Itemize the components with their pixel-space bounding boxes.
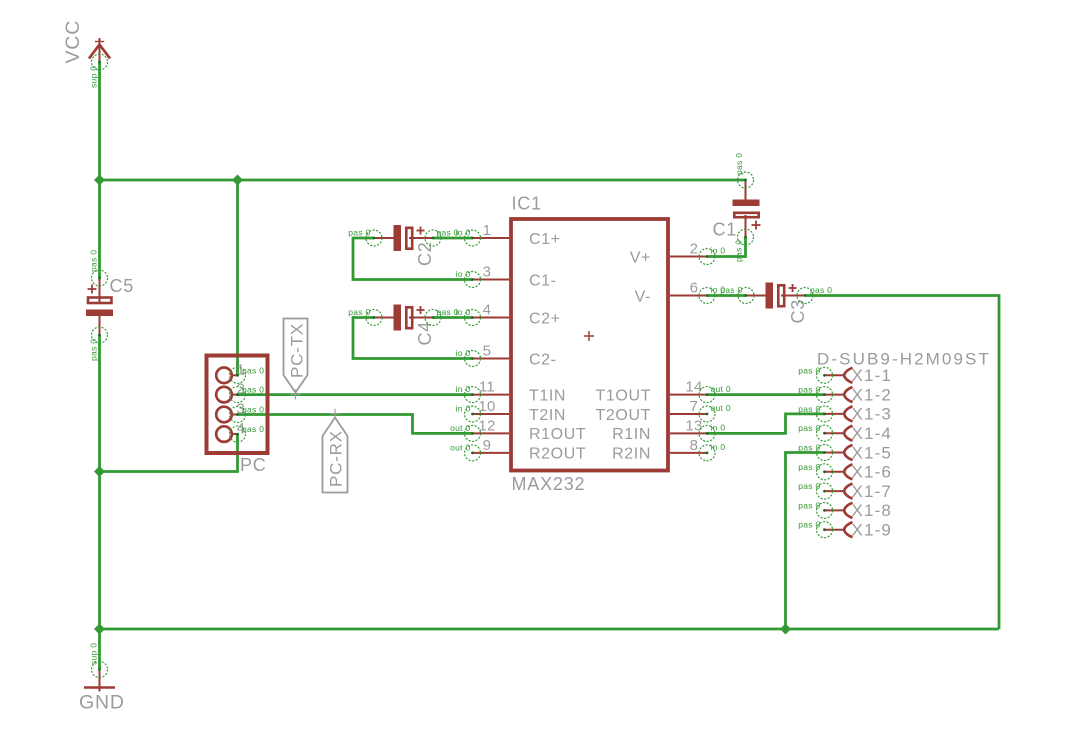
svg-text:pas 0: pas 0 bbox=[810, 285, 832, 295]
wire C4 minus loop to pin5 bbox=[353, 318, 473, 359]
svg-text:7: 7 bbox=[690, 398, 699, 415]
svg-text:VCC: VCC bbox=[62, 20, 84, 64]
svg-text:pas 0: pas 0 bbox=[348, 228, 370, 238]
wire net PC-TX PC pin2 to T1IN pin11 bbox=[238, 393, 473, 396]
wire VCC net vertical drop bbox=[98, 62, 101, 180]
svg-text:X1-3: X1-3 bbox=[852, 405, 893, 424]
svg-text:X1-4: X1-4 bbox=[852, 424, 893, 443]
svg-text:C1-: C1- bbox=[529, 272, 557, 289]
svg-text:12: 12 bbox=[478, 417, 495, 434]
svg-text:pas 0: pas 0 bbox=[798, 500, 820, 510]
IC1 pin 6 V- bbox=[635, 280, 726, 306]
svg-text:pas 0: pas 0 bbox=[242, 385, 264, 395]
svg-text:pas 0: pas 0 bbox=[242, 365, 264, 375]
svg-text:pas 0: pas 0 bbox=[798, 443, 820, 453]
svg-text:pas 0: pas 0 bbox=[242, 424, 264, 434]
svg-text:in 0: in 0 bbox=[711, 423, 726, 433]
svg-text:X1-6: X1-6 bbox=[852, 463, 893, 482]
connector pin X1-9 bbox=[798, 520, 892, 540]
svg-text:C2-: C2- bbox=[529, 351, 557, 368]
IC1 pin 13 R1IN bbox=[612, 417, 725, 443]
svg-text:pas 0: pas 0 bbox=[89, 250, 99, 272]
supply symbol GND bbox=[79, 643, 125, 714]
IC1 pin 11 T1IN bbox=[456, 379, 566, 405]
svg-text:1: 1 bbox=[483, 222, 492, 239]
svg-text:pas 0: pas 0 bbox=[734, 153, 744, 175]
svg-text:X1-8: X1-8 bbox=[852, 501, 893, 520]
IC1 pin 1 C1+ bbox=[456, 222, 561, 248]
capacitor C3 bbox=[720, 283, 832, 324]
svg-text:C1+: C1+ bbox=[529, 231, 561, 248]
svg-text:D-SUB9-H2M09ST: D-SUB9-H2M09ST bbox=[817, 350, 991, 369]
svg-text:pas 0: pas 0 bbox=[798, 481, 820, 491]
svg-text:out 0: out 0 bbox=[711, 403, 731, 413]
svg-text:pas 0: pas 0 bbox=[798, 404, 820, 414]
connector pin X1-6 bbox=[798, 462, 892, 482]
wire R1IN pin13 to X1-3 bbox=[707, 414, 825, 434]
svg-text:GND: GND bbox=[79, 692, 125, 714]
svg-text:V-: V- bbox=[635, 288, 651, 305]
svg-text:pas 0: pas 0 bbox=[798, 385, 820, 395]
svg-text:5: 5 bbox=[483, 343, 492, 360]
IC1 pin 5 C2- bbox=[456, 343, 557, 369]
svg-text:in 0: in 0 bbox=[711, 442, 726, 452]
svg-text:sup 0: sup 0 bbox=[89, 643, 99, 665]
svg-text:io 0: io 0 bbox=[456, 269, 471, 279]
svg-text:io 0: io 0 bbox=[456, 307, 471, 317]
wire C2 plus to pin1 bbox=[433, 237, 473, 240]
svg-text:8: 8 bbox=[690, 437, 699, 454]
svg-text:MAX232: MAX232 bbox=[512, 474, 586, 494]
capacitor C1 bbox=[713, 153, 761, 262]
svg-text:9: 9 bbox=[483, 437, 492, 454]
svg-text:X1-1: X1-1 bbox=[852, 366, 893, 385]
svg-text:pas 0: pas 0 bbox=[89, 339, 99, 361]
connector pin X1-7 bbox=[798, 481, 892, 501]
svg-text:in 0: in 0 bbox=[456, 384, 471, 394]
svg-text:C5: C5 bbox=[110, 276, 135, 296]
connector pin X1-4 bbox=[798, 423, 892, 443]
connector pin X1-8 bbox=[798, 500, 892, 520]
IC1 pin 8 R2IN bbox=[612, 437, 725, 463]
svg-text:pas 0: pas 0 bbox=[242, 405, 264, 415]
IC1 pin 7 T2OUT bbox=[596, 398, 731, 424]
IC1 pin 3 C1- bbox=[456, 264, 557, 290]
svg-text:6: 6 bbox=[690, 280, 699, 297]
net label PC-RX bbox=[323, 409, 348, 493]
wire V- pin6 to C3 bbox=[707, 294, 746, 297]
svg-text:C3: C3 bbox=[788, 299, 808, 324]
svg-text:sup 0: sup 0 bbox=[89, 66, 99, 88]
connector pin X1-5 bbox=[798, 443, 892, 463]
junction VCC rail / C5 branch bbox=[94, 175, 105, 186]
svg-text:io 0: io 0 bbox=[456, 228, 471, 238]
svg-text:T2OUT: T2OUT bbox=[596, 407, 651, 424]
IC1 pin 9 R2OUT bbox=[450, 437, 586, 463]
svg-text:PC-TX: PC-TX bbox=[288, 323, 307, 378]
wire VCC to PC pin1 bbox=[236, 180, 239, 375]
svg-text:4: 4 bbox=[483, 302, 492, 319]
connector PC 4-pin header bbox=[207, 356, 268, 476]
wire C5 bottom to GND rail bbox=[98, 335, 101, 629]
svg-text:X1-2: X1-2 bbox=[852, 385, 893, 404]
svg-text:C2+: C2+ bbox=[529, 310, 561, 327]
wire T1OUT pin14 to X1-2 bbox=[707, 393, 825, 396]
capacitor C2 bbox=[348, 225, 459, 266]
IC1 pin 14 T1OUT bbox=[596, 379, 731, 405]
svg-text:out 0: out 0 bbox=[711, 384, 731, 394]
svg-text:io 0: io 0 bbox=[711, 285, 726, 295]
connector pin X1-3 bbox=[798, 404, 892, 424]
wire GND rail to GND symbol bbox=[98, 629, 101, 670]
svg-text:pas 0: pas 0 bbox=[734, 240, 744, 262]
svg-text:PC-RX: PC-RX bbox=[327, 430, 346, 487]
capacitor C4 bbox=[348, 305, 459, 346]
svg-text:out 0: out 0 bbox=[450, 423, 470, 433]
wire C2 minus loop to pin3 bbox=[353, 238, 473, 280]
svg-text:11: 11 bbox=[479, 379, 495, 396]
capacitor C5 bbox=[86, 250, 134, 361]
wire X1-5 to GND rail bbox=[786, 453, 825, 630]
supply symbol VCC bbox=[62, 20, 110, 88]
svg-text:10: 10 bbox=[478, 398, 495, 415]
svg-text:13: 13 bbox=[685, 417, 702, 434]
svg-text:out 0: out 0 bbox=[450, 442, 470, 452]
wire VCC top rail bbox=[100, 179, 746, 182]
IC1 pin 2 V+ bbox=[630, 241, 726, 267]
connector X1 title D-SUB9-H2M09ST bbox=[817, 350, 991, 369]
svg-text:R1IN: R1IN bbox=[612, 426, 651, 443]
svg-text:in 0: in 0 bbox=[456, 404, 471, 414]
wire net PC-RX PC pin3 to R1OUT pin12 bbox=[238, 415, 473, 434]
svg-text:R2OUT: R2OUT bbox=[529, 446, 586, 463]
svg-text:PC: PC bbox=[240, 455, 267, 475]
svg-text:pas 0: pas 0 bbox=[798, 365, 820, 375]
svg-text:X1-7: X1-7 bbox=[852, 482, 893, 501]
svg-text:T1OUT: T1OUT bbox=[596, 387, 651, 404]
svg-text:14: 14 bbox=[685, 379, 702, 396]
IC1 pin 12 R1OUT bbox=[450, 417, 586, 443]
wire C4 plus to pin4 bbox=[433, 316, 473, 319]
IC1 pin 4 C2+ bbox=[456, 302, 561, 328]
svg-text:X1-5: X1-5 bbox=[852, 443, 893, 462]
svg-text:io 0: io 0 bbox=[456, 348, 471, 358]
svg-text:T2IN: T2IN bbox=[529, 407, 566, 424]
svg-text:2: 2 bbox=[690, 241, 699, 258]
op-amp IC1 MAX232 body bbox=[511, 194, 668, 495]
svg-text:V+: V+ bbox=[630, 249, 651, 266]
svg-text:io 0: io 0 bbox=[711, 246, 726, 256]
junction GND rail left corner bbox=[94, 624, 105, 635]
junction VCC rail / PC pin1 branch bbox=[232, 175, 243, 186]
svg-text:pas 0: pas 0 bbox=[798, 423, 820, 433]
wire VCC rail to C5 top bbox=[98, 180, 101, 278]
wire C1 bottom to V+ pin2 bbox=[707, 237, 746, 257]
net label PC-TX bbox=[284, 319, 308, 400]
svg-text:C4: C4 bbox=[415, 321, 435, 346]
svg-text:pas 0: pas 0 bbox=[798, 520, 820, 530]
svg-text:R1OUT: R1OUT bbox=[529, 426, 586, 443]
wire GND branch to PC pin4 bbox=[100, 434, 238, 471]
svg-text:pas 0: pas 0 bbox=[348, 307, 370, 317]
svg-text:C2: C2 bbox=[415, 241, 435, 266]
junction GND rail / X1-5 branch bbox=[780, 624, 791, 635]
svg-text:3: 3 bbox=[483, 264, 492, 281]
wire GND bottom rail bbox=[100, 628, 1000, 631]
connector pin X1-2 bbox=[798, 385, 892, 405]
svg-text:C1: C1 bbox=[713, 220, 738, 240]
IC1 pin 10 T2IN bbox=[456, 398, 566, 424]
svg-text:X1-9: X1-9 bbox=[852, 521, 893, 540]
svg-text:IC1: IC1 bbox=[512, 194, 542, 214]
svg-text:pas 0: pas 0 bbox=[798, 462, 820, 472]
svg-text:R2IN: R2IN bbox=[612, 446, 651, 463]
svg-text:T1IN: T1IN bbox=[529, 387, 566, 404]
junction GND branch to PC pin4 bbox=[94, 466, 105, 477]
connector pin X1-1 bbox=[798, 365, 892, 385]
wire right riser C3 to GND rail bbox=[806, 296, 999, 630]
